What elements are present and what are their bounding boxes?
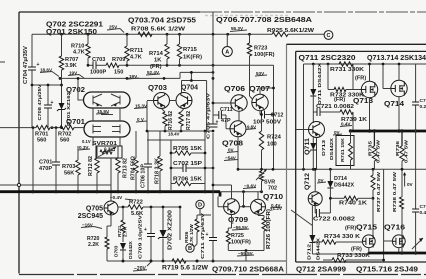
svg-text:(FR): (FR) xyxy=(355,76,366,82)
box right section inner xyxy=(296,51,426,262)
transistor Q710 xyxy=(251,199,266,214)
resistor R717 xyxy=(181,109,184,113)
capacitor C704 xyxy=(31,34,33,127)
resistor R703 xyxy=(77,146,79,160)
wire SVR701 to Q705 xyxy=(110,158,112,201)
resistor R718 xyxy=(159,131,161,156)
svg-text:Q715.716 2SJ49: Q715.716 2SJ49 xyxy=(356,265,418,274)
svg-text:56K: 56K xyxy=(64,171,74,177)
wire Q709 collector xyxy=(213,185,232,199)
svg-text:R723: R723 xyxy=(254,46,267,52)
svg-text:Q711 2SC2320: Q711 2SC2320 xyxy=(299,55,356,62)
svg-text:D713: D713 xyxy=(321,140,327,156)
border frame bottom xyxy=(19,274,426,276)
svg-text:(FR): (FR) xyxy=(345,226,356,232)
svg-text:0.2: 0.2 xyxy=(420,104,426,110)
svg-text:Q703.704 2SD755: Q703.704 2SD755 xyxy=(128,18,196,25)
svg-text:Q709.710 2SD668A: Q709.710 2SD668A xyxy=(212,265,285,274)
wire Q707 base xyxy=(250,56,253,99)
wire -54V row xyxy=(238,168,426,170)
svg-text:Q701: Q701 xyxy=(66,119,85,126)
svg-text:(FR): (FR) xyxy=(334,97,345,103)
bus source thick xyxy=(369,252,426,255)
wire supply row right xyxy=(304,63,426,65)
svg-text:Q705: Q705 xyxy=(86,206,103,213)
svg-text:D714: D714 xyxy=(334,176,347,182)
junction xyxy=(60,84,63,87)
svg-text:Q711: Q711 xyxy=(304,137,311,155)
wire mid row xyxy=(147,130,213,132)
svg-text:R734 330 K: R734 330 K xyxy=(324,234,360,240)
svg-text:R741 15K: R741 15K xyxy=(340,137,346,162)
wire xyxy=(352,64,354,89)
resistor R926 xyxy=(194,244,197,247)
svg-text:18.4V: 18.4V xyxy=(168,132,180,137)
transistor Q711 xyxy=(309,122,325,138)
svg-text:C721 0.0082: C721 0.0082 xyxy=(316,104,354,110)
transistor Q705 xyxy=(104,201,118,215)
resistor R705 xyxy=(171,152,175,154)
resistor R723 xyxy=(249,34,251,43)
svg-text:D711 DS442X: D711 DS442X xyxy=(317,62,323,105)
transistor pair Q702 xyxy=(84,92,131,108)
wire xyxy=(303,64,305,169)
junction on +55V rail xyxy=(226,33,229,36)
wire 19V row xyxy=(60,72,213,78)
svg-text:R716 82: R716 82 xyxy=(168,111,174,130)
wire Q706-Q708 xyxy=(238,111,240,121)
resistor R716 xyxy=(162,109,166,113)
resistor R724 xyxy=(261,118,263,132)
svg-text:R703: R703 xyxy=(62,164,75,170)
wire Q713 source xyxy=(369,98,371,131)
capacitor C712 xyxy=(260,111,262,115)
wire xyxy=(228,251,264,262)
svg-text:4.7K 1/2W: 4.7K 1/2W xyxy=(189,224,194,246)
svg-text:R713 82: R713 82 xyxy=(123,158,129,178)
svg-text:100(FR): 100(FR) xyxy=(231,240,251,246)
svg-text:R717 82: R717 82 xyxy=(186,111,192,130)
wire Q714 source xyxy=(398,97,400,131)
resistor R720 xyxy=(107,215,111,237)
box divider left section xyxy=(286,44,288,274)
border frame left xyxy=(18,12,20,274)
capacitor C701 xyxy=(55,128,57,192)
resistor R707 xyxy=(61,34,63,56)
potentiometer SVR702 xyxy=(260,171,264,181)
node A terminal xyxy=(222,47,232,57)
svg-text:R740 1K: R740 1K xyxy=(339,201,368,207)
svg-text:1K(FR): 1K(FR) xyxy=(183,55,202,61)
wire Q707 collector xyxy=(260,65,274,169)
svg-text:R719 5.6 1/2W: R719 5.6 1/2W xyxy=(162,265,208,272)
svg-text:R714: R714 xyxy=(149,51,164,57)
svg-text:Q710: Q710 xyxy=(263,194,283,201)
wire R736 lower xyxy=(401,169,403,253)
svg-text:D703: D703 xyxy=(114,245,120,257)
svg-text:0.4: 0.4 xyxy=(420,210,426,216)
svg-text:R736: R736 xyxy=(395,141,401,156)
transistor Q712 xyxy=(308,192,322,206)
transistor Q716 (FET) xyxy=(392,235,405,248)
svg-text:Q712: Q712 xyxy=(304,172,311,190)
resistor R737 xyxy=(372,169,374,175)
svg-text:−0.4V: −0.4V xyxy=(110,195,123,200)
resistor R712 xyxy=(96,146,98,158)
svg-text:4.7K: 4.7K xyxy=(130,55,142,61)
svg-text:R735: R735 xyxy=(368,141,374,156)
wire xyxy=(147,139,171,141)
junction xyxy=(260,113,263,116)
junction xyxy=(212,77,215,80)
resistor R740 xyxy=(330,197,344,199)
svg-text:100(FR): 100(FR) xyxy=(254,52,275,58)
wire Q704 collector xyxy=(182,72,207,131)
svg-text:Q706.707.708 2SB648A: Q706.707.708 2SB648A xyxy=(216,17,312,24)
svg-text:A: A xyxy=(225,50,229,56)
wire Q714 gate xyxy=(383,64,391,89)
svg-text:+: + xyxy=(144,227,147,233)
svg-text:R706 15K: R706 15K xyxy=(173,177,202,183)
capacitor C703 / resistor R709 row xyxy=(88,64,93,66)
junction on +55V rail xyxy=(60,33,63,36)
resistor R725 xyxy=(228,215,231,231)
resistor R706 xyxy=(171,183,175,185)
junction xyxy=(312,63,315,66)
svg-text:Q704: Q704 xyxy=(181,85,198,92)
svg-text:SVR701: SVR701 xyxy=(92,141,117,147)
svg-text:Q715: Q715 xyxy=(356,225,377,232)
junction on +55V rail xyxy=(87,33,90,36)
svg-text:C702 15P: C702 15P xyxy=(173,161,202,167)
svg-text:R712 82: R712 82 xyxy=(88,156,94,176)
transistor Q706 xyxy=(231,95,247,111)
svg-text:Q703: Q703 xyxy=(148,85,167,92)
wire box right xyxy=(204,131,206,190)
svg-text:C706 10P: C706 10P xyxy=(141,163,147,188)
svg-text:R731 330K: R731 330K xyxy=(330,67,364,73)
wire Q703 base drop xyxy=(146,101,148,131)
wire Q709/Q710 bases xyxy=(239,206,250,208)
svg-text:Q701 2SK150: Q701 2SK150 xyxy=(46,29,97,36)
svg-text:B: B xyxy=(188,246,192,252)
resistor R925 (in rail) xyxy=(272,32,288,36)
svg-text:C709 10µ/25V: C709 10µ/25V xyxy=(138,214,144,259)
capacitor C711b 47P xyxy=(213,114,219,116)
junction on +55V rail xyxy=(212,33,215,36)
svg-text:R705 15K: R705 15K xyxy=(173,146,202,152)
resistor R736 xyxy=(401,131,403,146)
transistor Q713 (FET) xyxy=(361,81,377,97)
transistor Q714 (FET) xyxy=(391,80,407,96)
svg-text:C708 47µ/25V: C708 47µ/25V xyxy=(37,84,43,121)
svg-text:0V: 0V xyxy=(407,182,414,187)
svg-text:560: 560 xyxy=(37,138,46,144)
wire xyxy=(122,207,124,220)
wire stub top edge xyxy=(212,12,214,34)
svg-text:Q708: Q708 xyxy=(222,141,243,148)
svg-text:R721: R721 xyxy=(117,225,123,237)
svg-text:C722 0.0082: C722 0.0082 xyxy=(313,217,355,223)
wire Q714 drain xyxy=(398,64,400,80)
resistor R734 xyxy=(312,241,322,243)
svg-text:100: 100 xyxy=(267,142,277,148)
svg-text:R708 5.6K 1/2W: R708 5.6K 1/2W xyxy=(131,27,186,33)
svg-text:C703: C703 xyxy=(92,57,105,63)
svg-text:1K: 1K xyxy=(154,58,162,64)
node B terminal xyxy=(186,244,194,252)
wire R701 R702 row xyxy=(0,127,36,129)
resistor R722 xyxy=(118,206,128,208)
svg-text:R715: R715 xyxy=(183,47,198,53)
svg-text:702: 702 xyxy=(268,186,277,192)
svg-text:Q714: Q714 xyxy=(384,101,404,108)
svg-text:C705 47µ/63V: C705 47µ/63V xyxy=(206,92,212,139)
junction on +55V rail xyxy=(126,33,129,36)
diode D703 xyxy=(120,243,126,250)
junction xyxy=(400,251,403,254)
resistor R735 xyxy=(373,131,375,146)
junction xyxy=(126,77,129,80)
svg-text:D712: D712 xyxy=(307,244,313,260)
junction xyxy=(32,126,35,129)
svg-text:Q713: Q713 xyxy=(353,98,373,105)
junction xyxy=(349,129,352,132)
svg-text:C712: C712 xyxy=(271,113,284,119)
svg-text:4.7K: 4.7K xyxy=(73,50,85,56)
resistor R711 xyxy=(126,34,128,46)
transistor Q704 xyxy=(176,93,192,109)
wire Q713 drain xyxy=(369,64,371,81)
svg-text:R726 100(FR): R726 100(FR) xyxy=(266,209,272,249)
border frame top xyxy=(19,11,200,13)
resistor R710 xyxy=(87,34,89,44)
diode D714 xyxy=(329,169,331,181)
svg-text:Q702: Q702 xyxy=(66,87,85,94)
potentiometer SVR701 xyxy=(96,146,122,158)
svg-text:560: 560 xyxy=(60,138,69,144)
svg-text:R704 56Ω: R704 56Ω xyxy=(131,156,137,180)
transistor Q703 xyxy=(154,93,170,109)
junction xyxy=(47,84,50,87)
bus -16V thick xyxy=(0,192,220,197)
svg-text:D: D xyxy=(198,203,202,209)
junction xyxy=(146,130,149,133)
svg-text:470P: 470P xyxy=(39,166,52,172)
svg-text:C711: C711 xyxy=(220,107,233,113)
wire +55V rail xyxy=(32,33,324,35)
svg-text:+: + xyxy=(216,120,219,126)
resistor R741 xyxy=(350,131,352,143)
wire interstage xyxy=(93,108,120,121)
capacitor C711 xyxy=(212,207,214,261)
svg-text:C: C xyxy=(326,33,330,39)
svg-text:Q712 2SA999: Q712 2SA999 xyxy=(296,265,346,274)
junctions on thick bus xyxy=(31,190,34,193)
wire Q710 collector up xyxy=(257,192,259,200)
svg-text:10P 500V: 10P 500V xyxy=(253,120,281,126)
transistor Q707 xyxy=(252,94,268,110)
wire xyxy=(179,207,181,240)
wire Q706 base xyxy=(213,102,231,104)
svg-text:+: + xyxy=(51,100,54,106)
svg-text:R711: R711 xyxy=(130,48,143,54)
wire Q711 emitter xyxy=(316,138,318,170)
svg-text:DS442X: DS442X xyxy=(128,240,134,259)
wire Q715 source xyxy=(368,247,370,253)
svg-text:Q713.714 2SK134: Q713.714 2SK134 xyxy=(367,55,426,62)
svg-text:C704 47µ/35V: C704 47µ/35V xyxy=(23,45,29,84)
resistor R733 xyxy=(323,259,332,261)
svg-text:0.47 5W: 0.47 5W xyxy=(376,139,382,163)
svg-text:(FR): (FR) xyxy=(351,247,362,253)
resistor R714 xyxy=(166,34,168,44)
resistor R726 xyxy=(258,214,264,218)
svg-text:R709: R709 xyxy=(112,57,125,63)
junction on +55V rail xyxy=(248,33,251,36)
resistor R739 xyxy=(340,110,353,114)
capacitor C722 xyxy=(315,206,316,213)
resistor R702 xyxy=(60,125,74,129)
svg-text:D702 XZ200: D702 XZ200 xyxy=(168,210,174,250)
diode D711 xyxy=(312,64,314,89)
svg-text:1000P: 1000P xyxy=(90,70,106,76)
svg-text:R737 0.47 5W: R737 0.47 5W xyxy=(376,171,382,212)
wire stub left edge xyxy=(0,61,5,63)
svg-text:Q706: Q706 xyxy=(224,86,245,93)
svg-text:Q702 2SC2291: Q702 2SC2291 xyxy=(46,22,103,29)
resistor R719 xyxy=(172,259,186,263)
resistor R732 xyxy=(328,64,334,90)
svg-text:0.47 5W: 0.47 5W xyxy=(404,139,410,163)
box R741 xyxy=(336,136,354,166)
svg-text:2.2K: 2.2K xyxy=(88,242,99,248)
svg-text:3.9K: 3.9K xyxy=(65,63,77,69)
wire xyxy=(32,128,34,192)
capacitor C706 xyxy=(147,131,149,192)
svg-text:47P: 47P xyxy=(221,118,231,124)
svg-text:C711 47µ/63V: C711 47µ/63V xyxy=(200,212,206,259)
wire Q703/Q704 bases xyxy=(147,100,176,102)
capacitor C709 xyxy=(150,207,152,261)
svg-text:R725: R725 xyxy=(231,233,244,239)
svg-text:R925 5.6K1/2W: R925 5.6K1/2W xyxy=(267,28,315,34)
junction open xyxy=(17,183,20,186)
box right section outer xyxy=(287,43,426,45)
capacitor C702 xyxy=(171,167,183,169)
svg-text:0.1V: 0.1V xyxy=(82,139,91,144)
resistor R704 xyxy=(135,131,137,158)
svg-text:C701: C701 xyxy=(39,160,52,166)
svg-text:R724: R724 xyxy=(267,135,282,141)
junction on +55V rail xyxy=(166,33,169,36)
bus bottom xyxy=(107,260,287,262)
node C terminal xyxy=(324,31,333,40)
wire thin bus xyxy=(0,184,111,186)
svg-text:2SC945: 2SC945 xyxy=(78,213,103,220)
resistor R738 xyxy=(400,197,404,209)
wire output arrow xyxy=(412,238,423,249)
transistor Q709 xyxy=(224,199,240,215)
transistor Q708 xyxy=(230,121,246,137)
resistor R708 (in rail) xyxy=(138,32,152,36)
resistor R715 xyxy=(179,34,181,44)
junction on +55V rail xyxy=(178,33,181,36)
svg-text:(FR): (FR) xyxy=(150,64,162,70)
zener D701 xyxy=(61,78,63,127)
svg-text:DS442X: DS442X xyxy=(334,183,354,189)
wire Q712 emitter diag xyxy=(291,210,312,226)
wire Q716 source xyxy=(398,247,400,253)
transistor Q715 (FET) xyxy=(362,235,375,248)
svg-text:(1.2V: (1.2V xyxy=(271,206,283,211)
capacitor C723 xyxy=(415,131,417,253)
junction xyxy=(77,77,80,80)
svg-text:150: 150 xyxy=(114,70,123,76)
diode D713 xyxy=(312,136,314,143)
svg-text:R718 3.3K: R718 3.3K xyxy=(155,158,161,184)
junction xyxy=(237,168,240,171)
svg-text:DS442X: DS442X xyxy=(329,137,335,160)
svg-text:R738 0.47 5W: R738 0.47 5W xyxy=(392,171,398,212)
capacitor C708 xyxy=(47,85,49,128)
svg-text:DS442X: DS442X xyxy=(316,237,322,260)
transistor pair Q701 (dual FET) xyxy=(84,121,130,137)
svg-text:R722: R722 xyxy=(129,200,143,206)
wire box left xyxy=(171,140,205,190)
resistor R731 xyxy=(339,62,353,66)
resistor R713 xyxy=(117,146,119,158)
node D terminal xyxy=(196,200,204,208)
wire Q708 emitter xyxy=(237,137,239,170)
capacitor C717 xyxy=(415,64,417,131)
svg-text:C7: C7 xyxy=(420,98,426,104)
junction xyxy=(87,64,90,67)
wire Q702 base xyxy=(78,78,84,100)
svg-text:C7: C7 xyxy=(420,204,426,210)
diode D712 xyxy=(311,206,313,235)
bus output thick xyxy=(351,130,426,133)
capacitor C710 xyxy=(209,124,218,127)
junctions bottom bus xyxy=(122,260,125,263)
junction xyxy=(272,113,275,116)
wire Q712 collector xyxy=(314,169,316,191)
capacitor C721 xyxy=(313,111,317,113)
zener D702 xyxy=(162,207,164,261)
svg-text:2.7K: 2.7K xyxy=(123,226,129,237)
wire main center drop xyxy=(212,34,214,207)
resistor R721 xyxy=(121,220,125,233)
wire Q701 sources xyxy=(93,137,120,146)
resistor R701 xyxy=(36,125,50,129)
